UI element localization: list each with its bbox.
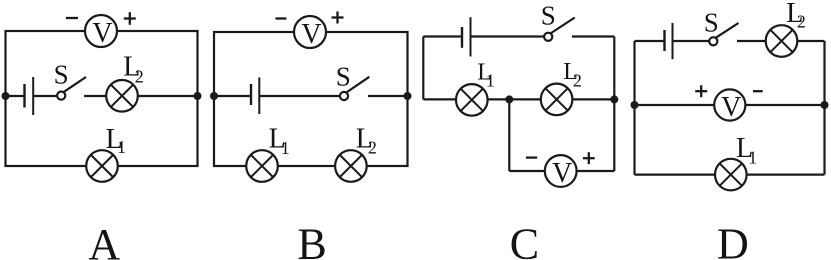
node: D left junction bbox=[631, 101, 639, 109]
wire: D right edge bbox=[823, 41, 825, 175]
wire: B switch to right edge bbox=[368, 95, 408, 97]
wire: circuit A outer loop bbox=[6, 31, 198, 166]
svg-text:L2: L2 bbox=[123, 52, 144, 87]
node: B right junction bbox=[404, 92, 412, 100]
switch S (A) bbox=[57, 77, 86, 100]
voltmeter V (A) bbox=[85, 15, 117, 49]
node: C right junction bbox=[610, 95, 618, 103]
wire: B middle branch left segment bbox=[214, 95, 251, 97]
lamp L2 (D) bbox=[766, 25, 798, 57]
wire: D switch to lamp L2 bbox=[737, 40, 825, 42]
node: A left junction bbox=[2, 92, 10, 100]
battery (C) bbox=[462, 17, 471, 56]
lamp L1 (A) bbox=[86, 150, 118, 182]
lamp L1 (D) bbox=[715, 159, 747, 191]
svg-text:C: C bbox=[510, 219, 539, 260]
voltmeter V (D) bbox=[714, 89, 745, 123]
wire: C voltmeter branch vertical bbox=[508, 99, 510, 171]
wire: C left edge bbox=[422, 37, 424, 100]
wire: C right edge bbox=[613, 37, 615, 172]
svg-text:S: S bbox=[336, 61, 351, 91]
svg-text:D: D bbox=[717, 219, 749, 260]
wire: D top branch left segment bbox=[635, 40, 665, 42]
minus sign (D voltmeter) bbox=[753, 90, 763, 92]
lamp L2 (C) bbox=[541, 84, 573, 116]
node: C middle junction bbox=[505, 95, 513, 103]
lamp L2 (A) bbox=[106, 80, 138, 112]
lamp L2 (B) bbox=[335, 150, 367, 182]
wire: D left edge bbox=[633, 41, 635, 175]
plus sign (A voltmeter) bbox=[124, 12, 136, 25]
svg-text:L1: L1 bbox=[269, 123, 290, 158]
wire: C battery to switch bbox=[471, 35, 545, 37]
minus sign (B voltmeter) bbox=[275, 17, 286, 19]
wire: A middle branch left segment bbox=[6, 95, 25, 97]
node: D right junction bbox=[821, 101, 829, 109]
svg-text:V: V bbox=[552, 158, 572, 189]
switch S (C) bbox=[544, 18, 575, 41]
svg-text:S: S bbox=[541, 1, 556, 31]
svg-text:V: V bbox=[92, 18, 112, 49]
node: A right junction bbox=[194, 92, 202, 100]
battery (D) bbox=[665, 23, 673, 59]
voltmeter V (B) bbox=[294, 16, 326, 50]
battery (B) bbox=[251, 78, 259, 115]
wire: D bottom branch bbox=[635, 174, 825, 176]
svg-text:L2: L2 bbox=[786, 0, 806, 32]
wire: D battery to switch bbox=[673, 40, 710, 42]
svg-text:B: B bbox=[297, 219, 326, 260]
svg-text:V: V bbox=[721, 92, 741, 123]
svg-text:L1: L1 bbox=[106, 124, 126, 157]
svg-text:L2: L2 bbox=[356, 123, 377, 157]
wire: C voltmeter branch horizontal bbox=[509, 170, 614, 172]
wire: B battery to switch bbox=[259, 95, 340, 97]
lamp L1 (B) bbox=[246, 150, 278, 182]
wire: D middle branch bbox=[635, 104, 825, 106]
wire: C switch to right edge bbox=[572, 35, 614, 37]
plus sign (B voltmeter) bbox=[332, 12, 344, 24]
voltmeter V (C) bbox=[545, 155, 577, 189]
svg-text:S: S bbox=[704, 8, 719, 38]
wire: C middle branch bbox=[423, 98, 614, 100]
svg-text:S: S bbox=[54, 60, 69, 90]
plus sign (D voltmeter) bbox=[695, 85, 707, 97]
minus sign (C voltmeter) bbox=[526, 156, 537, 158]
lamp L1 (C) bbox=[456, 84, 488, 116]
switch S (B) bbox=[340, 77, 369, 100]
wire: A battery to switch bbox=[33, 95, 57, 97]
wire: A switch to right edge bbox=[84, 95, 198, 97]
svg-text:L1: L1 bbox=[736, 133, 757, 167]
battery (A) bbox=[25, 77, 34, 115]
node: B left junction bbox=[210, 92, 218, 100]
switch S (D) bbox=[709, 23, 738, 45]
wire: C top branch left segment bbox=[423, 35, 462, 37]
svg-text:V: V bbox=[301, 19, 321, 50]
plus sign (C voltmeter) bbox=[583, 152, 595, 164]
wire: circuit B outer loop bbox=[214, 32, 408, 166]
minus sign (A voltmeter) bbox=[66, 17, 78, 19]
svg-text:A: A bbox=[88, 220, 120, 260]
